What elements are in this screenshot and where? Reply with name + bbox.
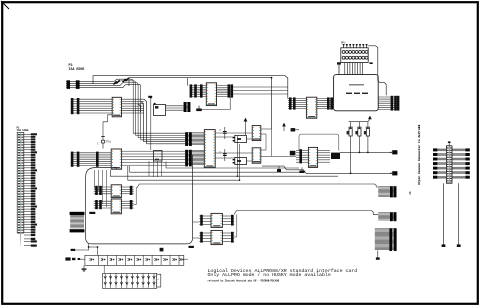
stub ribbon bars <box>184 102 191 112</box>
tick at RP1 right <box>370 62 373 64</box>
wire W1 <box>75 244 88 250</box>
wire ladder to grid <box>103 265 105 273</box>
diode ladder row <box>85 255 184 265</box>
wire bus group up-over-down 1 <box>114 79 185 133</box>
ground under U9 <box>299 167 304 173</box>
junction node <box>148 96 152 99</box>
ground cap under U3 <box>196 106 202 112</box>
label blob W1 <box>71 249 76 251</box>
ribbon U4 to U5 <box>317 97 334 109</box>
wire U1 bottom to crystal <box>103 115 112 136</box>
junction marks above ladder <box>160 248 164 252</box>
wires U3 to U4 <box>233 87 288 94</box>
IC U6 tall <box>204 130 215 168</box>
wires U6 to gates <box>215 133 252 158</box>
V1 end bars <box>70 212 85 233</box>
gate box G1 <box>233 135 247 142</box>
IC U15 small <box>154 103 166 116</box>
IC U4 <box>306 97 316 118</box>
junction dots on rails <box>350 152 369 175</box>
RP1 leads down to U5 <box>345 63 363 75</box>
ribbon bus out of U1 <box>122 99 145 113</box>
ribbon into U2 <box>71 152 111 167</box>
wire top rail 2 <box>129 78 272 129</box>
resistor network RP1 <box>341 42 368 63</box>
ribbon out of U12 <box>222 215 234 226</box>
connector P1 ISA edge strip <box>17 133 24 234</box>
big IC U5 block <box>334 75 379 111</box>
wire rail A <box>110 170 338 176</box>
dots U7 U8 rails <box>237 175 241 181</box>
crystal Y1 <box>97 136 112 149</box>
ribbon into U6 upper <box>185 132 204 146</box>
label blob right of U9 <box>331 153 340 159</box>
wire stepped to pin <box>262 166 391 173</box>
IC U8 <box>252 148 261 163</box>
connector J1 right leads <box>452 148 470 178</box>
svg-text:XTAL: XTAL <box>106 141 112 144</box>
ribbon into U12 <box>199 215 211 226</box>
vcc arrow 2 <box>282 123 286 131</box>
junction node rail2 branch <box>271 77 273 79</box>
connector P1 title <box>17 126 30 132</box>
RP1 pin 1 lead <box>337 62 341 74</box>
wire rail F <box>130 166 303 172</box>
ribbon into U10 <box>94 186 112 195</box>
wire bus group SA lines <box>66 82 123 88</box>
RP1 right lead to vertical <box>368 46 386 95</box>
wire rail C to ribbon Ja <box>137 184 377 188</box>
svg-text:J1: J1 <box>408 191 412 195</box>
group outline wire <box>299 134 339 150</box>
resistor R1 <box>347 122 353 174</box>
connector J1 top pin <box>448 141 451 145</box>
ribbon out of U3 <box>217 84 234 97</box>
wire top rail 1 <box>93 76 288 99</box>
ground sym bottom left <box>82 265 87 271</box>
wire rail D to ribbon Jb <box>234 211 378 215</box>
ribbon into U4 <box>288 97 306 109</box>
title text <box>208 268 358 283</box>
svg-text:ISA EDGE: ISA EDGE <box>17 129 30 132</box>
resistor R2 <box>355 122 361 153</box>
ribbon into U11 <box>94 200 112 209</box>
IC U2 <box>111 149 121 169</box>
label P3 ISA EDGE <box>69 63 85 71</box>
wire U13 out join <box>234 214 237 237</box>
svg-text:Only ALLPRO mode / no HUSKY mo: Only ALLPRO mode / no HUSKY mode availab… <box>208 272 331 278</box>
wires gates to U7 U8 <box>246 129 296 161</box>
ribbon bus into U1 <box>71 98 112 114</box>
wire rail B <box>128 166 240 180</box>
label blobs W2 <box>65 257 80 260</box>
IC U14 small <box>154 151 163 162</box>
ribbon out of U11 <box>121 200 133 209</box>
pin blob rail end <box>390 171 397 175</box>
ribbon into U13 <box>199 232 211 243</box>
vertical ribbon connector V1 <box>70 215 84 228</box>
IC U12 <box>211 213 222 227</box>
resistor R3 <box>364 122 370 153</box>
ribbon out of U5 <box>378 96 399 111</box>
label blob left of U11 <box>89 212 95 214</box>
bus slash marks <box>114 78 129 85</box>
IC U9 <box>308 147 317 167</box>
wire rail E <box>166 162 299 169</box>
wires U15 to stub <box>166 106 184 110</box>
connector P1 pin leads and net labels <box>21 133 38 246</box>
wires under U14 <box>149 161 162 177</box>
vcc feed for pull resistors <box>349 116 372 122</box>
wire W2 <box>80 258 85 260</box>
wire net to pin 2 <box>340 151 391 153</box>
ribbon out of U13 <box>222 232 234 243</box>
wires U7 U8 down to rails <box>238 136 240 180</box>
label blob left of U9 <box>290 151 296 156</box>
ground blob on stepped wire <box>277 166 281 172</box>
ribbon Ja <box>378 186 396 197</box>
wires into U12 U13 <box>186 222 199 244</box>
ribbon into U6 lower <box>185 150 204 167</box>
connector J1 legs <box>442 183 461 247</box>
wires U2 right to U6 ribbon <box>122 151 185 165</box>
wire U1 outputs bend down <box>144 99 185 144</box>
ribbon Jb <box>378 212 396 221</box>
wire ladder right stub <box>184 258 188 260</box>
net label blob near group <box>291 128 299 131</box>
wire bus group up-over-down 4 <box>123 84 185 140</box>
svg-text:retraced by Zbyszek Wozniak ak: retraced by Zbyszek Wozniak aka GH - POZ… <box>208 280 280 283</box>
ribbon Jc <box>375 228 397 251</box>
wires feed stacked ICs <box>95 170 107 207</box>
wire big loop around DIP area <box>86 155 193 244</box>
IC U13 <box>211 230 222 244</box>
capacitor C2 <box>220 127 227 139</box>
ribbon out of U10 <box>121 186 133 195</box>
ground left of U13 <box>189 246 194 248</box>
wire U11 out up join <box>134 188 137 205</box>
pin blob net 2 <box>390 150 397 154</box>
wire U3 right loop down <box>202 97 230 109</box>
bus entry ticks left <box>67 80 80 89</box>
ribbon into U9 <box>296 149 308 163</box>
svg-text:RP1: RP1 <box>341 42 346 45</box>
connector J1 left leads <box>433 148 446 178</box>
diode grid block <box>103 273 161 288</box>
vertical bus lines <box>150 98 152 150</box>
svg-text:37pin Cannon Connector to ALPr: 37pin Cannon Connector to ALPro88 <box>417 124 421 185</box>
capacitor C3 <box>220 149 227 161</box>
connector J1 strip <box>446 146 452 184</box>
IC U11 <box>111 199 121 214</box>
gate box G2 <box>233 157 247 164</box>
IC U10 <box>111 185 121 198</box>
wire bus group up-over-down 3 <box>120 83 185 138</box>
svg-text:ISA EDGE: ISA EDGE <box>69 67 85 71</box>
IC U1 <box>112 97 121 117</box>
wire Jc down to pad <box>376 250 380 259</box>
label J1 rotated text <box>408 124 421 195</box>
IC U3 <box>206 83 216 106</box>
junction dot W1 <box>88 246 99 255</box>
wire U3 ribbon up to rail2 <box>187 78 189 86</box>
wire bus group up-over-down 2 <box>117 81 185 135</box>
IC U7 <box>252 126 261 141</box>
ribbon into U3 <box>190 84 207 97</box>
ribbon out of U9 <box>318 150 330 162</box>
vcc arrow 1 <box>244 118 248 136</box>
